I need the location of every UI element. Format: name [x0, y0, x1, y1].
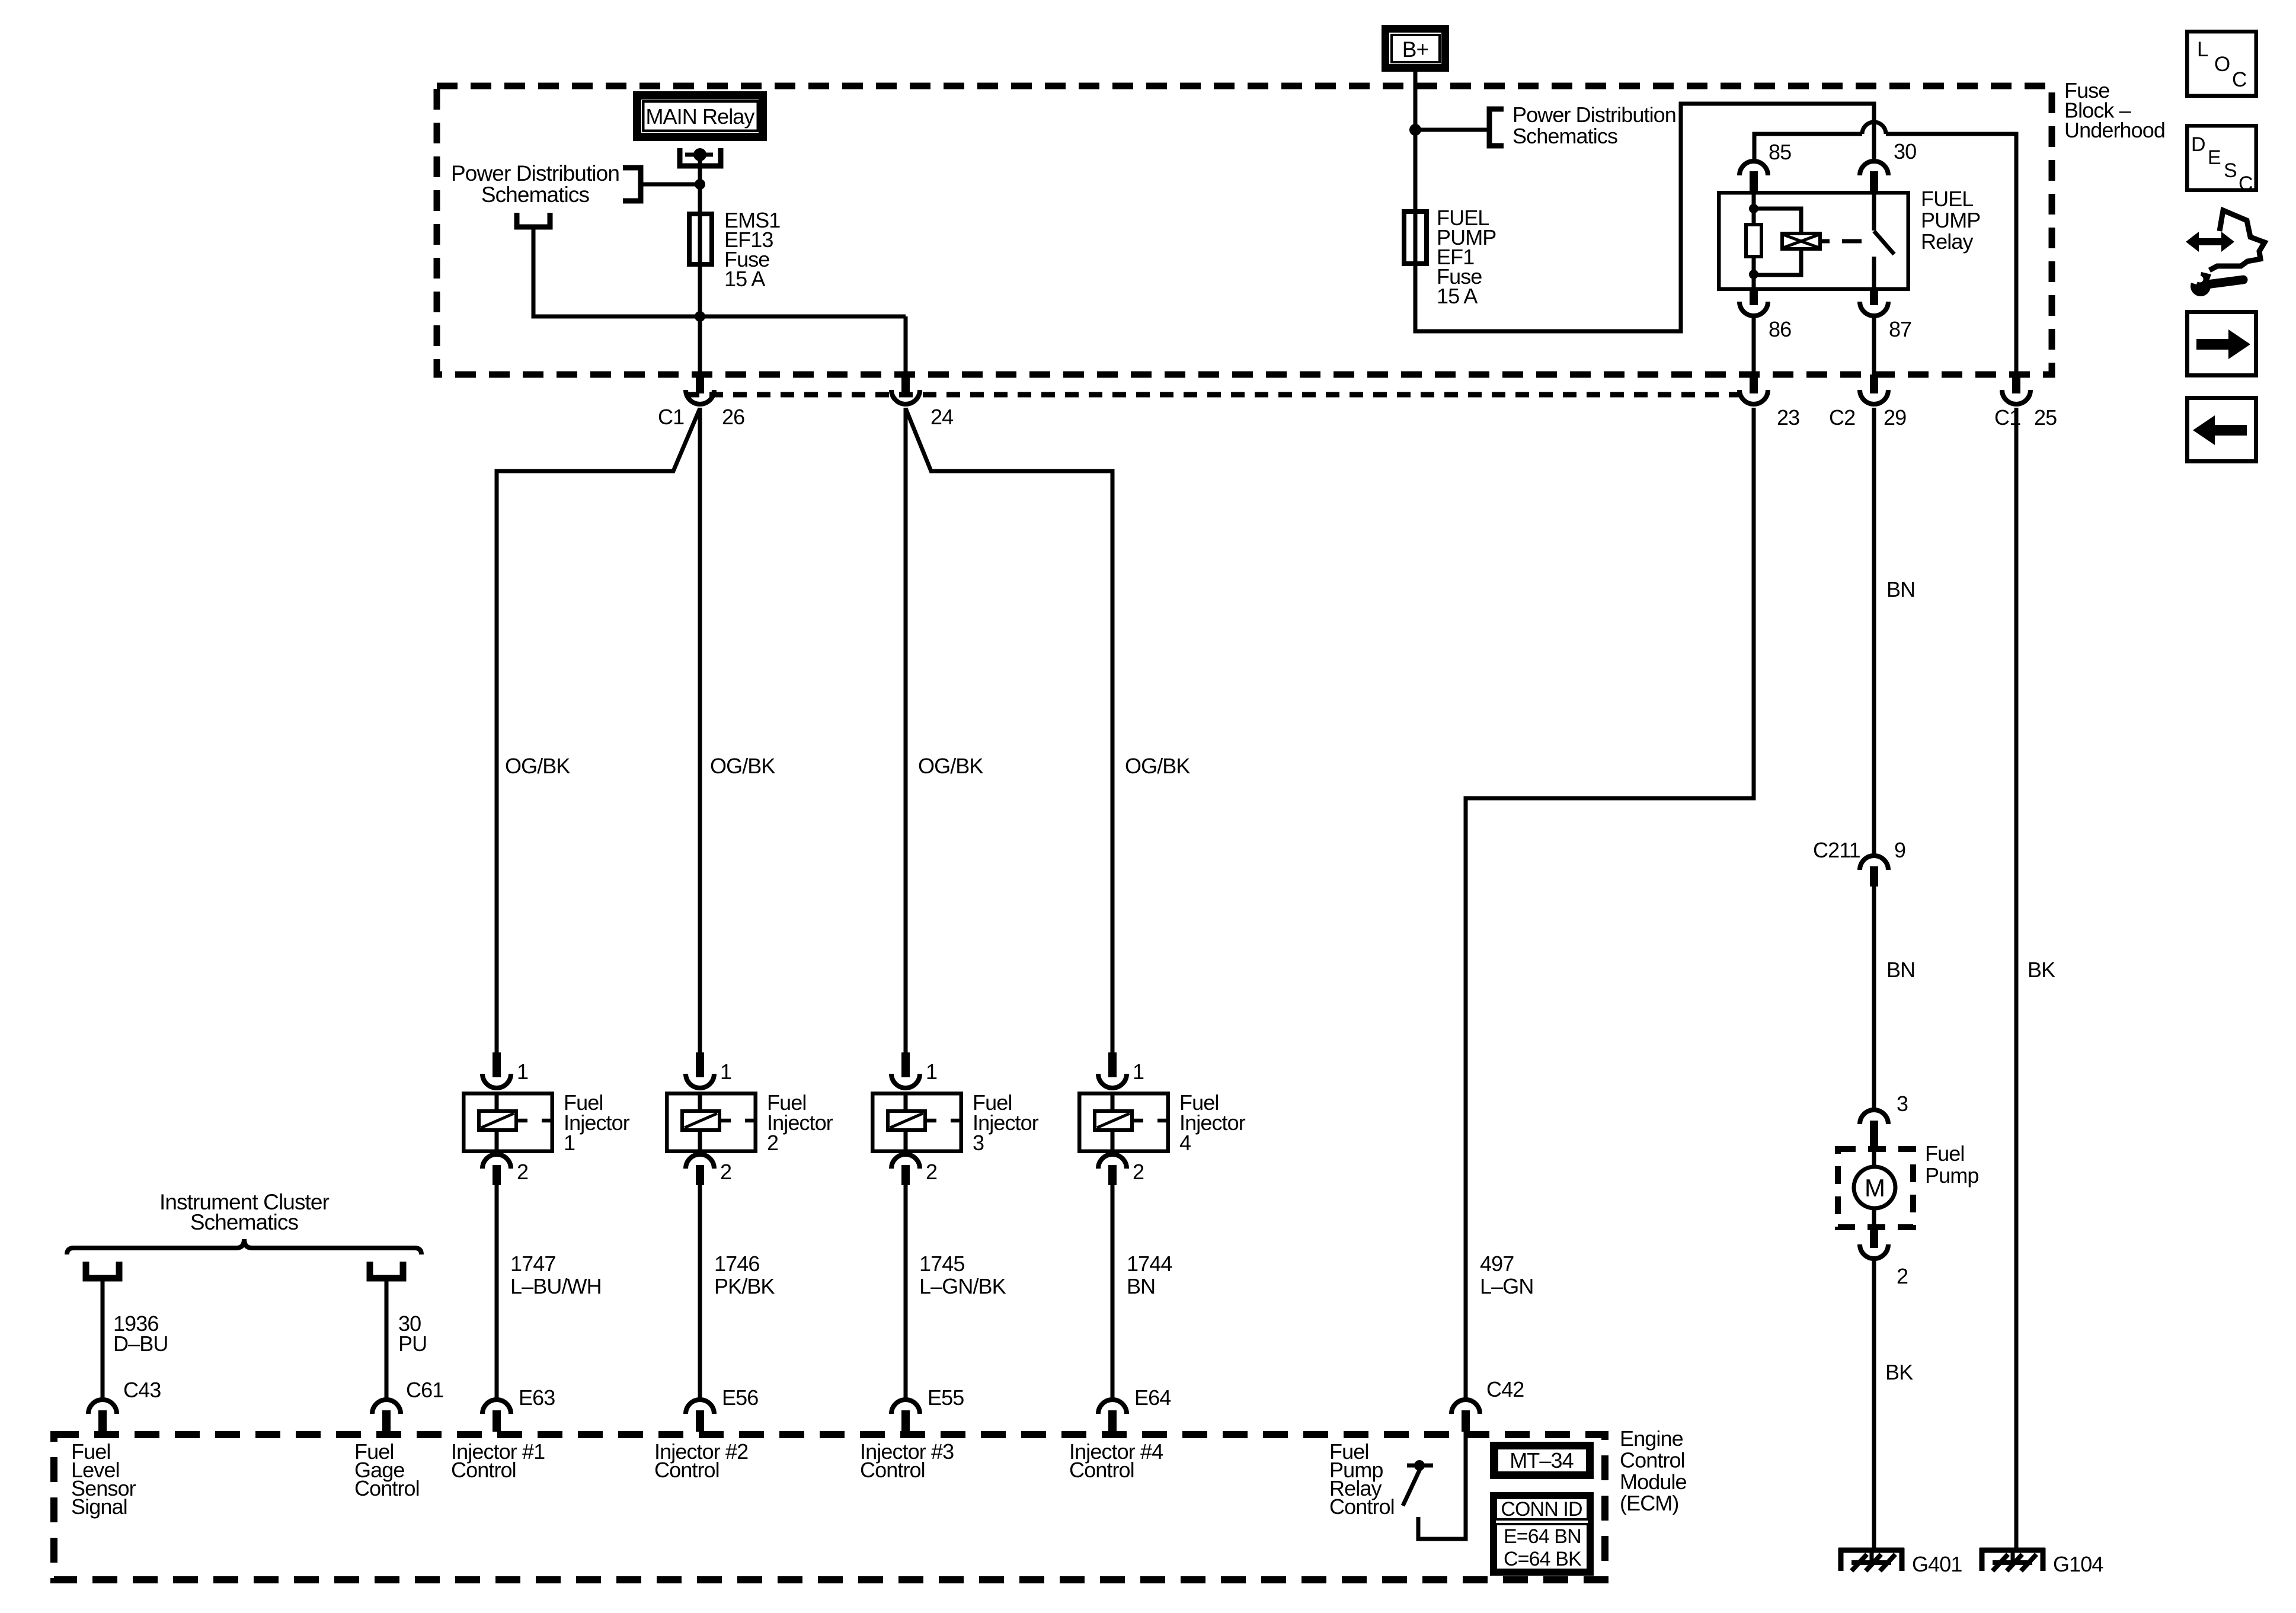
svg-text:C61: C61 [406, 1378, 443, 1402]
svg-text:E=64 BN: E=64 BN [1504, 1525, 1581, 1548]
fuse EMS1 EF13 15A [689, 214, 712, 264]
relay actuator dashed link [1822, 239, 1830, 244]
ground G104 [1980, 1548, 2045, 1553]
svg-text:CONN ID: CONN ID [1501, 1498, 1582, 1521]
svg-text:Power Distribution: Power Distribution [451, 161, 619, 185]
svg-text:G401: G401 [1912, 1552, 1962, 1576]
wire to connector 24 [904, 316, 908, 375]
connector C2 pin 29 [1870, 375, 1878, 393]
svg-text:3: 3 [973, 1131, 984, 1155]
svg-text:M: M [1865, 1174, 1885, 1202]
svg-text:D: D [2191, 133, 2205, 156]
junction to power distribution link [695, 179, 705, 190]
svg-text:L–GN/BK: L–GN/BK [919, 1274, 1006, 1298]
svg-text:Schematics: Schematics [481, 183, 590, 207]
fuse block - underhood (dashed box) [437, 86, 2052, 375]
fuel injector 2 [696, 1052, 704, 1077]
svg-text:C2: C2 [1829, 405, 1855, 430]
wire branch 24 to injector 4 [906, 408, 1112, 1052]
connector C1 pin 25 [2012, 375, 2020, 393]
svg-text:3: 3 [1897, 1092, 1908, 1116]
svg-text:E55: E55 [928, 1385, 964, 1410]
svg-text:1: 1 [926, 1060, 937, 1084]
injector 4 pin 2 connector [1098, 1154, 1127, 1169]
svg-text:1: 1 [1133, 1060, 1144, 1084]
svg-text:C42: C42 [1486, 1377, 1524, 1401]
wire to C43 [101, 1281, 105, 1400]
fuel pump pin 2 connector [1870, 1230, 1878, 1248]
svg-text:2: 2 [720, 1160, 731, 1184]
fuel pump dashed box [1838, 1149, 1913, 1227]
svg-text:15 A: 15 A [1437, 284, 1478, 308]
wire injector 3 to ECM [904, 1185, 908, 1400]
wire relay pin 86 (23) to ECM C42 [1466, 408, 1754, 1400]
connector E64 [1098, 1400, 1127, 1414]
next page arrow icon [2188, 312, 2256, 376]
svg-text:BK: BK [1885, 1360, 1913, 1384]
svg-text:2: 2 [926, 1160, 937, 1184]
wire from link down to fuse output line [533, 229, 906, 316]
svg-text:Power Distribution: Power Distribution [1512, 103, 1676, 127]
svg-text:85: 85 [1769, 140, 1791, 164]
svg-text:OG/BK: OG/BK [1125, 754, 1190, 778]
svg-text:497: 497 [1480, 1252, 1514, 1276]
svg-text:30: 30 [1894, 139, 1916, 164]
svg-text:E56: E56 [722, 1385, 758, 1410]
svg-text:O: O [2214, 53, 2230, 76]
relay coil winding [1754, 209, 1801, 233]
svg-text:24: 24 [930, 405, 953, 429]
ground G401 [1838, 1548, 1904, 1553]
svg-text:FUEL: FUEL [1921, 187, 1973, 211]
svg-text:Control: Control [860, 1458, 925, 1482]
svg-text:1: 1 [720, 1060, 731, 1084]
svg-text:Signal: Signal [71, 1494, 127, 1519]
connector C1 pin 26 [696, 375, 704, 393]
svg-text:Control: Control [354, 1476, 420, 1500]
main relay terminal bracket [680, 148, 721, 166]
svg-text:C43: C43 [123, 1378, 161, 1402]
link cup below Power Distribution label [517, 213, 550, 227]
svg-text:9: 9 [1894, 838, 1905, 862]
relay pin 86 connector [1750, 291, 1758, 305]
svg-text:Engine: Engine [1620, 1426, 1683, 1451]
fuse FUEL PUMP EF1 15A [1404, 212, 1427, 264]
svg-text:PK/BK: PK/BK [714, 1274, 775, 1298]
DESC icon box [2187, 126, 2256, 190]
svg-text:BN: BN [1127, 1274, 1155, 1298]
svg-text:Pump: Pump [1925, 1163, 1978, 1188]
wire injector 2 to ECM [698, 1185, 702, 1400]
wire hop over pin 30 wire [1862, 122, 1886, 134]
wire C42 hook inside ECM [1418, 1432, 1466, 1539]
svg-text:15 A: 15 A [724, 267, 765, 291]
svg-text:Control: Control [1620, 1448, 1685, 1472]
wire injector 4 to ECM [1111, 1185, 1115, 1400]
connector E56 [686, 1400, 714, 1414]
svg-text:1747: 1747 [510, 1252, 556, 1276]
link bracket to Power Distribution Schematics (left) [623, 168, 641, 201]
svg-text:OG/BK: OG/BK [918, 754, 983, 778]
svg-text:E63: E63 [519, 1385, 555, 1410]
svg-text:1744: 1744 [1127, 1252, 1172, 1276]
MAIN Relay label box [637, 95, 763, 137]
svg-text:E64: E64 [1134, 1385, 1171, 1410]
svg-text:OG/BK: OG/BK [505, 754, 570, 778]
svg-text:L–BU/WH: L–BU/WH [510, 1274, 602, 1298]
svg-text:G104: G104 [2053, 1552, 2103, 1576]
relay switch contact [1872, 191, 1876, 231]
wire EF1 fuse to relay pin 30 [1415, 104, 1874, 331]
svg-text:L: L [2197, 38, 2208, 61]
wire B+ down to EF1 fuse [1414, 72, 1418, 212]
svg-text:Control: Control [1329, 1494, 1395, 1519]
svg-text:1: 1 [564, 1131, 575, 1155]
wire main relay to connector C1 26 [698, 155, 702, 373]
wire pin 87 down [1872, 316, 1876, 375]
relay pin 85 connector [1739, 161, 1768, 175]
wire 26 to injector 2 [698, 408, 702, 1052]
svg-text:BK: BK [2028, 958, 2055, 982]
svg-text:Underhood: Underhood [2064, 118, 2165, 142]
svg-text:25: 25 [2034, 405, 2057, 430]
svg-text:Schematics: Schematics [190, 1210, 299, 1234]
svg-text:(ECM): (ECM) [1620, 1491, 1678, 1515]
svg-text:B+: B+ [1402, 37, 1429, 62]
svg-text:2: 2 [517, 1160, 528, 1184]
svg-text:C: C [2239, 172, 2253, 195]
svg-text:Control: Control [451, 1458, 516, 1482]
fuel injector 4 [1108, 1052, 1117, 1077]
wire relay pin 85 to connector C1 25 (with crossover hop) [1754, 134, 1862, 161]
svg-text:PUMP: PUMP [1921, 208, 1980, 232]
wire pin 86 down [1752, 316, 1756, 375]
connector pin 23 [1750, 375, 1758, 393]
junction dot on EMS1 output [695, 311, 705, 322]
svg-text:L–GN: L–GN [1480, 1274, 1533, 1298]
svg-text:Fuel: Fuel [1925, 1141, 1964, 1166]
MT-34 box [1493, 1445, 1591, 1476]
svg-text:Control: Control [1069, 1458, 1134, 1482]
connector C42 [1451, 1400, 1480, 1414]
relay pin 87 connector [1870, 291, 1878, 305]
junction node B+ / power distribution [1409, 124, 1421, 136]
connector E55 [891, 1400, 920, 1414]
svg-text:Schematics: Schematics [1512, 124, 1617, 148]
previous page arrow icon [2188, 398, 2256, 462]
wire branch 26 to injector 1 [497, 408, 700, 1052]
brace [67, 1239, 421, 1254]
connector pin 24 [901, 375, 910, 393]
LOC icon box [2187, 31, 2256, 96]
wire 24 to injector 3 [904, 408, 908, 1052]
svg-text:2: 2 [767, 1131, 778, 1155]
wire 29 down [1872, 408, 1876, 856]
svg-text:23: 23 [1777, 405, 1799, 430]
wire pump to ground G401 [1872, 1260, 1876, 1548]
svg-text:29: 29 [1884, 405, 1906, 430]
svg-text:OG/BK: OG/BK [710, 754, 775, 778]
wire to C61 [385, 1281, 389, 1400]
ECM driver switch symbol [1407, 1464, 1433, 1468]
svg-text:C: C [2232, 68, 2246, 91]
hotlink icon (arrow through component with wrench) [2209, 210, 2265, 270]
injector 2 pin 2 connector [686, 1154, 714, 1169]
svg-text:87: 87 [1889, 317, 1911, 341]
svg-text:2: 2 [1897, 1264, 1908, 1288]
svg-text:C1: C1 [658, 405, 684, 429]
svg-text:1745: 1745 [919, 1252, 965, 1276]
svg-text:Relay: Relay [1921, 229, 1973, 254]
svg-text:BN: BN [1886, 577, 1915, 601]
svg-text:Control: Control [654, 1458, 720, 1482]
relay coil resistor [1752, 191, 1756, 223]
svg-text:C211: C211 [1813, 838, 1860, 862]
FUEL PUMP relay box [1719, 193, 1908, 289]
svg-text:PU: PU [398, 1332, 427, 1356]
svg-text:2: 2 [1133, 1160, 1144, 1184]
svg-text:1: 1 [517, 1060, 528, 1084]
svg-text:E: E [2208, 146, 2221, 169]
link bracket to Power Distribution Schematics (right) [1489, 109, 1504, 146]
svg-text:26: 26 [722, 405, 744, 429]
injector 3 pin 2 connector [891, 1154, 920, 1169]
svg-text:Module: Module [1620, 1470, 1687, 1494]
svg-text:1746: 1746 [714, 1252, 760, 1276]
svg-text:C=64 BK: C=64 BK [1504, 1548, 1582, 1570]
wire injector 1 to ECM [495, 1185, 499, 1400]
cluster link cup left [86, 1262, 119, 1278]
connector face dotted line [686, 392, 1740, 398]
svg-text:MAIN Relay: MAIN Relay [645, 104, 754, 129]
svg-text:BN: BN [1886, 958, 1915, 982]
svg-text:MT–34: MT–34 [1510, 1448, 1574, 1473]
wire C1 25 to ground G104 [2014, 408, 2019, 1548]
relay pin 30 connector [1860, 161, 1888, 175]
engine control module (dashed box) [54, 1435, 1605, 1580]
svg-text:S: S [2224, 159, 2237, 182]
svg-text:86: 86 [1769, 317, 1791, 341]
fuel injector 1 [493, 1052, 501, 1077]
injector 1 pin 2 connector [482, 1154, 511, 1169]
svg-text:D–BU: D–BU [113, 1332, 168, 1356]
cluster link cup right [370, 1262, 403, 1278]
fuel pump motor M [1872, 1146, 1876, 1167]
connector E63 [482, 1400, 511, 1414]
svg-text:4: 4 [1179, 1131, 1191, 1155]
fuel injector 3 [901, 1052, 910, 1077]
battery B+ symbol [1386, 29, 1446, 68]
CONN ID box [1493, 1495, 1591, 1573]
